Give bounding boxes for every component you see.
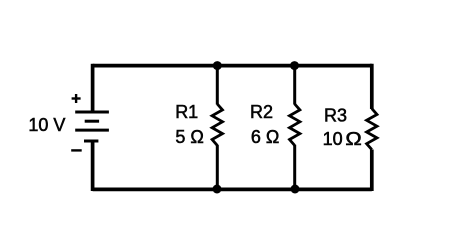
wire R1 branch upper	[216, 66, 219, 105]
node junction R2 top	[290, 61, 299, 70]
svg-text:R3: R3	[324, 106, 347, 126]
wire R2 branch upper	[293, 66, 296, 105]
wire left upper (top rail to battery + plate)	[91, 64, 95, 112]
node junction R2 bottom	[291, 185, 300, 194]
resistor R1	[212, 104, 222, 145]
svg-text:R1: R1	[175, 102, 198, 122]
svg-text:10: 10	[323, 129, 343, 149]
wire top	[93, 64, 372, 68]
battery 10 V	[75, 112, 109, 141]
wire right lower (R3 to bottom rail)	[370, 150, 374, 192]
node junction R1 top	[213, 61, 222, 70]
wire left lower (battery - plate to bottom rail)	[91, 141, 95, 191]
svg-text:5 Ω: 5 Ω	[175, 127, 203, 147]
node junction R1 bottom	[213, 185, 222, 194]
wire R2 branch lower	[293, 145, 296, 189]
wire bottom	[93, 188, 372, 192]
svg-text:6 Ω: 6 Ω	[251, 127, 279, 147]
battery minus sign	[71, 149, 82, 151]
svg-text:10 V: 10 V	[28, 115, 65, 135]
resistor R3	[367, 109, 377, 150]
resistor R2	[290, 104, 300, 145]
wire R1 branch lower	[216, 145, 219, 189]
battery plus sign	[72, 94, 81, 103]
svg-text:Ω: Ω	[345, 129, 361, 149]
svg-text:R2: R2	[250, 102, 273, 122]
wire right upper (top rail to R3)	[370, 64, 374, 109]
